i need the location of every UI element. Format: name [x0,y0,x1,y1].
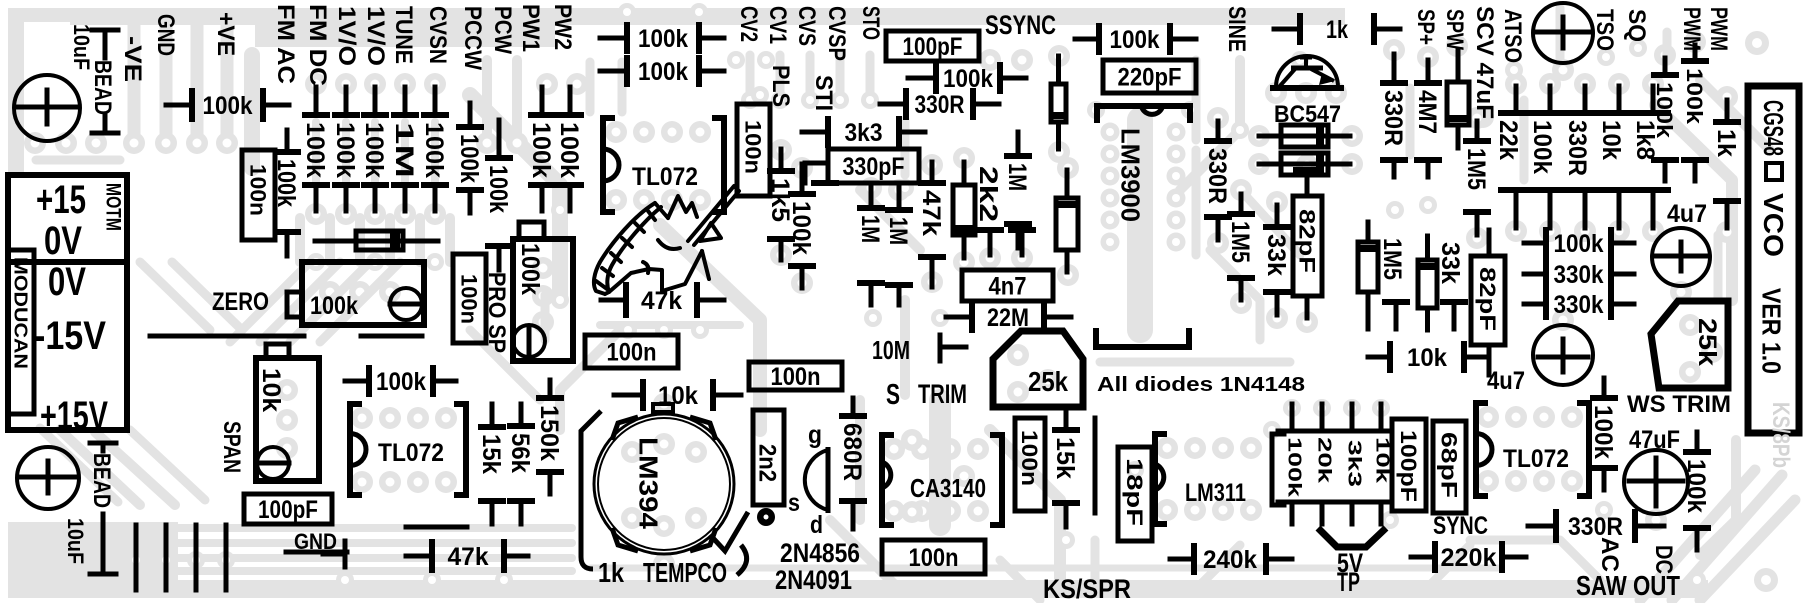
svg-text:TUNE: TUNE [390,6,417,64]
svg-text:82pF: 82pF [1295,209,1320,273]
capacitor C22 100n [585,335,678,368]
trace near WS trim [1700,440,1736,555]
op-amp U6 CA3140 [882,435,894,525]
pads under top-right labels [1505,61,1523,79]
trace power bus [244,55,260,168]
resistor R pccw 100k [468,103,473,127]
svg-text:PCCW: PCCW [459,6,486,70]
capacitor C15 4u7 electrolytic [1533,325,1593,385]
svg-text:g: g [808,421,822,449]
svg-text:PCW: PCW [489,6,516,54]
svg-text:1k: 1k [598,557,624,588]
copper pour left edge [8,22,24,172]
svg-text:100n: 100n [457,274,482,324]
capacitor C6 100pF [244,494,332,524]
resistor R22 1k [1274,27,1300,32]
svg-text:100k: 100k [310,292,358,320]
capacitor C5 100n [737,104,770,196]
trace bus left vertical [128,20,141,138]
svg-text:15k: 15k [477,434,505,474]
op-amp U1 TL072 [603,118,615,212]
svg-text:FM AC: FM AC [272,4,299,84]
trace top-right vertical [1520,100,1529,180]
trace mid-bottom [990,430,1060,580]
svg-text:PWM: PWM [1678,7,1705,51]
capacitor C24 2n2 [753,410,784,505]
capacitor C20 100n [1015,418,1045,511]
wire w1 [406,525,467,530]
capacitor C1 10uF electrolytic [14,75,80,141]
svg-text:MOTM: MOTM [101,183,124,231]
resistor R2 100k [600,36,627,41]
svg-text:47k: 47k [448,543,489,571]
svg-text:1M: 1M [856,215,884,243]
pads LM394 [621,441,643,463]
svg-text:100k: 100k [1682,68,1707,125]
pads misc middle [770,139,792,161]
svg-text:100k: 100k [331,122,359,178]
capacitor C17 68pF [1433,421,1466,513]
wire stub 82pf t [1296,167,1318,173]
diode D3 1N4148 [1056,198,1078,250]
op-amp U3 LM3900 [1097,106,1190,123]
pads IC2 TL072 [351,407,373,429]
pads bottom center [1057,531,1075,549]
copper pour top strip [70,8,1345,25]
pads CA3140 [883,438,905,460]
pads top-right caps [1552,59,1574,81]
capacitor C18 47uF electrolytic [1624,450,1688,514]
svg-text:CA3140: CA3140 [910,473,986,503]
resistor R pcw 100k [497,120,502,158]
trace middle diagonals [470,95,560,300]
trace right of LM3900 [1192,60,1201,140]
copper pour top strip right part [255,25,555,47]
resistor R cv 1k5 [779,149,784,171]
trace LM3900 right column [1192,150,1201,255]
svg-text:4n7: 4n7 [989,273,1027,301]
capacitor C23 100n [749,362,842,390]
trimmer VR4 S-TRIM 25k [993,331,1083,407]
wire LM394 left lead [581,411,601,569]
via dot [757,508,775,526]
resistor R25 1M5 [1475,121,1480,141]
svg-text:1M5: 1M5 [1378,238,1406,280]
pads resistor rows [305,73,327,95]
svg-text:CV2: CV2 [735,6,762,42]
resistor R19 22M [946,315,972,320]
trace top-right stubs [1663,32,1672,55]
svg-text:100k: 100k [272,159,300,207]
svg-text:CV1: CV1 [764,6,791,44]
resistor R30 330k [1524,272,1546,277]
svg-text:100k: 100k [1652,82,1677,139]
svg-text:100k: 100k [638,58,688,86]
svg-text:33k: 33k [1262,234,1290,276]
capacitor C11 4n7 [962,270,1053,301]
board label box CGS48 VCO VER 1.0 [1748,86,1799,433]
svg-text:PW1: PW1 [517,4,544,52]
resistor R40 680R [851,398,856,416]
pads pot S-trim [1007,344,1029,366]
svg-text:1M5: 1M5 [1226,221,1254,263]
svg-text:SPW: SPW [1441,9,1468,50]
wire stub n2 [1011,227,1033,233]
trimmer VR1 ZERO 100k [302,262,424,325]
pads network stems [1283,399,1301,417]
svg-text:220pF: 220pF [1118,64,1182,92]
svg-text:100n: 100n [741,120,766,174]
connector ground pins [134,525,139,590]
svg-text:SQ: SQ [1623,9,1650,42]
pads right columns tops [1383,39,1405,61]
svg-text:SP+: SP+ [1412,9,1439,45]
svg-text:10k: 10k [1372,437,1392,484]
trace horizontal y168 left [36,156,120,165]
svg-text:+VE: +VE [212,12,239,56]
svg-text:100n: 100n [909,544,959,572]
resistor R10 100k [908,76,936,81]
trimmer VR3 100k [513,239,573,361]
svg-text:LM394: LM394 [634,437,664,530]
svg-text:TRIM: TRIM [918,379,967,409]
svg-text:100k: 100k [516,243,544,295]
svg-text:22k: 22k [1494,120,1522,160]
svg-text:4u7: 4u7 [1667,200,1707,228]
capacitor C19 18pF [1118,447,1152,541]
diode D5 1N4148 [1358,242,1378,292]
wire stub d6 [1443,299,1465,305]
trace middle-bottom diagonals [560,330,620,430]
wire stub n1 [979,227,1001,233]
copper pour bottom-left block [8,522,178,582]
trace bottom extra bus [590,565,1500,572]
svg-text:68pF: 68pF [1437,432,1462,498]
svg-text:PLS: PLS [767,65,794,107]
capacitor C21 100n [882,540,985,574]
trace bottom-right diagonals [1640,470,1755,600]
trace left middle diagonals [140,262,210,330]
resistor R m3 47k [930,162,935,183]
svg-text:100k: 100k [376,368,426,396]
svg-text:PWM: PWM [1705,7,1732,51]
trimmer VR2 SPAN 10k [256,358,319,481]
wire LM394 right lead [713,512,748,551]
svg-text:100k: 100k [638,25,688,53]
svg-text:SINE: SINE [1223,6,1250,52]
svg-text:100k: 100k [301,122,329,178]
resistor R@1653 1k8 [1651,86,1656,113]
svg-text:330pF: 330pF [843,153,905,181]
pads diode cluster [979,49,1001,71]
resistor R29 100k [1524,241,1546,246]
wire w2 [323,552,345,557]
resistor R8 100k [345,379,369,384]
svg-text:STI: STI [810,75,837,111]
diode D6 1N4148 [1418,260,1437,308]
svg-text:4M7: 4M7 [1413,90,1441,134]
svg-text:SAW OUT: SAW OUT [1576,570,1680,601]
resistor R33 100k [1602,378,1607,398]
pads IC1 TL072 [605,121,627,143]
svg-text:100k: 100k [360,122,388,178]
svg-text:680R: 680R [838,423,866,481]
svg-text:100n: 100n [246,164,271,216]
resistor R cv2 100k [800,164,805,194]
svg-text:330R: 330R [1563,120,1591,176]
resistor R1 100k [166,103,192,108]
svg-text:330k: 330k [1554,291,1604,319]
svg-text:-VE: -VE [119,36,146,82]
svg-text:100n: 100n [607,339,657,367]
svg-text:2n2: 2n2 [754,444,781,482]
trace group vertical [295,218,305,262]
svg-text:BEAD: BEAD [89,60,116,115]
unicorn logo artwork [594,186,739,294]
svg-text:1M5: 1M5 [1462,148,1490,190]
resistor R7 150k [548,380,553,398]
svg-text:ATSO: ATSO [1499,9,1526,63]
resistor R14 2k2 [953,185,975,235]
svg-text:STO: STO [857,6,884,40]
svg-text:25k: 25k [1693,318,1721,366]
svg-text:100pF: 100pF [258,496,318,524]
trace above 100n mid [600,321,740,329]
svg-text:PW2: PW2 [549,4,576,50]
svg-text:330R: 330R [1379,90,1407,146]
wire stub d5 [1385,299,1407,305]
svg-text:LM311: LM311 [1185,479,1246,507]
svg-text:82pF: 82pF [1475,267,1500,331]
wire w-zero [150,334,304,339]
svg-text:+15V: +15V [40,394,108,438]
svg-text:100k: 100k [420,122,448,178]
svg-text:2N4091: 2N4091 [775,565,852,595]
pads top-left row [24,132,46,154]
svg-text:100k: 100k [455,134,483,183]
trace bottom middle diag [1000,560,1040,600]
pads bottom right [1688,571,1706,589]
svg-text:ZERO: ZERO [212,288,269,316]
pads CV row [741,91,759,109]
trace misc fill 1 [470,330,540,400]
svg-text:MODUCAN: MODUCAN [10,257,30,369]
pads IC1 top resistors [618,3,636,21]
capacitor C16 100pF [1392,419,1426,511]
resistor R23 330R [1392,54,1397,83]
svg-text:-15V: -15V [34,314,106,358]
svg-text:1k: 1k [1326,16,1348,44]
svg-text:CVS: CVS [793,6,820,46]
svg-text:TL072: TL072 [632,163,698,191]
svg-text:15k: 15k [1051,437,1079,479]
pads misc right [1745,31,1769,55]
svg-text:25k: 25k [1028,366,1068,397]
svg-text:SYNC: SYNC [1433,512,1488,540]
capacitor C7 100pF [886,31,979,61]
capacitor C4 100n [453,254,486,343]
diode D4 1N4148 [1447,82,1469,125]
svg-text:100k: 100k [484,165,512,213]
wire w4 [1093,418,1098,513]
resistor R@346 100k [344,87,349,115]
pads top mid [727,51,745,69]
resistor R21 [1259,162,1350,167]
svg-text:47uF: 47uF [1629,426,1680,454]
resistor R37 240k [1170,557,1194,562]
trace diagonals below group1 [230,262,310,342]
svg-text:56k: 56k [506,433,534,473]
svg-text:1V/O: 1V/O [333,6,360,66]
svg-text:KS/SPR: KS/SPR [1043,574,1131,603]
copper pour top-left [8,8,70,22]
diode D2 1N4148 [1051,84,1066,122]
svg-text:150k: 150k [535,405,563,461]
capacitor C10 82pF [1293,196,1322,296]
resistor R5 15k [490,404,495,427]
svg-text:TSO: TSO [1591,9,1618,51]
op-amp U4 LM311 [1155,434,1167,524]
ferrite bead L2 [90,441,116,446]
svg-text:20k: 20k [1314,437,1334,484]
resistor R38 15k [1064,408,1069,430]
resistor R4 47k [406,554,432,559]
capacitor C3 100n [242,150,275,240]
trace diagonal left-bottom extra [40,428,118,502]
svg-text:1M: 1M [884,217,912,245]
svg-text:SCV 47uF: SCV 47uF [1471,6,1498,119]
resistor network RN1 [1270,434,1275,505]
svg-text:10uF: 10uF [63,518,88,564]
trace behind resistor columns [312,122,320,182]
pads S-trim area [901,429,923,451]
svg-text:100k: 100k [203,92,253,120]
trace wide mid bus [929,400,951,525]
ferrite bead L1 [92,28,118,33]
svg-text:100k: 100k [943,65,993,93]
resistor R15 1M [1016,132,1021,156]
svg-text:100k: 100k [1554,230,1604,258]
svg-text:CGS48: CGS48 [1758,100,1789,156]
svg-text:d: d [810,511,823,539]
pads trimmer pro-sp [532,257,554,279]
svg-text:100k: 100k [527,122,555,178]
resistor R m2 1M [897,187,902,210]
svg-text:10k: 10k [1407,344,1447,372]
resistor R3 100k [600,69,627,74]
resistor R27 100k [1693,45,1698,61]
svg-text:1M: 1M [390,122,418,178]
trace under LM3900 [1127,120,1153,330]
resistor R@405 1M [403,87,408,115]
pads scattered [551,201,569,219]
copper pour bottom band [8,580,1708,598]
resistor R@375 100k [373,87,378,115]
transistor Q1 BC547 [1270,85,1344,91]
capacitor C2 10uF electrolytic [17,447,79,509]
svg-text:4u7: 4u7 [1487,367,1525,395]
svg-text:100k: 100k [1110,26,1160,54]
svg-text:+15: +15 [36,178,86,222]
wire stub sti [814,180,836,186]
resistor R@542 100k [540,87,545,115]
svg-text:CVSN: CVSN [424,6,451,64]
svg-text:1M: 1M [1003,163,1031,191]
svg-text:100k: 100k [1284,437,1304,498]
svg-text:220k: 220k [1441,544,1497,572]
svg-text:VER 1.0: VER 1.0 [1757,288,1787,374]
resistor R24 4M7 [1426,60,1431,83]
svg-text:S: S [886,379,900,411]
svg-text:0V: 0V [44,219,82,263]
trace vertical near CV columns [746,55,755,95]
pads trimmer span [276,379,298,401]
resistor R17 1M5 [1239,194,1244,214]
svg-text:s: s [788,489,800,517]
svg-text:100n: 100n [1017,430,1042,486]
capacitor C13 4u7 electrolytic [1652,228,1710,286]
resistor R28 1k [1725,100,1730,122]
svg-text:TL072: TL072 [378,439,444,467]
op-amp U2 TL072 [350,404,362,495]
svg-text:BEAD: BEAD [88,453,115,508]
svg-text:33k: 33k [1436,242,1464,284]
transistor pair U7 LM394 [653,404,673,412]
resistor R@1516 22k [1514,86,1519,113]
svg-text:PRO SP: PRO SP [483,272,510,353]
svg-text:VCO: VCO [1758,193,1789,257]
resistor R32 10k [1368,355,1390,360]
pads pot WS-trim [1679,314,1701,336]
svg-text:2k2: 2k2 [974,166,1002,222]
connector J1 power header [8,175,127,262]
svg-text:TEMPCO: TEMPCO [643,557,727,588]
capacitor C8 330pF [828,149,919,183]
svg-text:100k: 100k [1528,120,1556,174]
resistor R9 47k [601,298,626,303]
resistor R34 100k [1695,432,1700,452]
trace bottom center vertical [1091,540,1100,585]
test point 5V TP [1318,528,1386,547]
svg-text:0V: 0V [48,260,86,304]
svg-text:100k: 100k [787,201,815,255]
svg-text:2N4856: 2N4856 [780,538,860,568]
resistor R20 [1259,134,1350,139]
op-amp U5 TL072 [1476,403,1488,496]
svg-text:10M: 10M [872,335,910,365]
resistor R z1 100k [285,130,290,152]
svg-text:10k: 10k [257,368,285,412]
svg-text:330R: 330R [915,91,965,119]
pads LM3900 [1101,123,1120,142]
svg-text:240k: 240k [1203,546,1257,574]
pads row below group1 [307,253,325,271]
trace near all-diodes [1100,358,1290,367]
trace right corner bends [1655,105,1732,300]
svg-text:TP: TP [1337,567,1360,597]
svg-text:100pF: 100pF [1396,430,1421,502]
svg-text:330R: 330R [1203,148,1231,204]
pads 47k row bottom [423,571,441,589]
svg-text:FM DC: FM DC [304,4,331,86]
wire stub 10M [938,335,943,361]
pads resistor columns tileC [1207,107,1229,129]
resistor R31 330k [1524,302,1546,307]
svg-text:3k3: 3k3 [1344,440,1364,487]
resistor R@1550 100k [1548,86,1553,113]
capacitor C9 220pF [1103,60,1196,93]
svg-text:CVSP: CVSP [823,6,850,61]
